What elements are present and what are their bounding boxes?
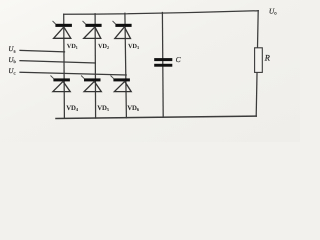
diode VD4 <box>51 76 71 92</box>
diode VD5 <box>81 76 101 92</box>
diode VD2 <box>83 21 102 39</box>
wire: column 1 vertical (VD1/VD4 branch) <box>63 14 66 118</box>
wire: phase C input line <box>20 72 126 75</box>
capacitor C plates <box>154 58 172 67</box>
wire: column 2 vertical (VD2/VD5 branch) <box>94 14 97 118</box>
diode VD1 <box>53 21 72 38</box>
paper background <box>0 0 300 142</box>
resistor R <box>255 48 263 73</box>
wire: column 3 vertical (VD3/VD6 branch) <box>125 13 127 118</box>
svg-text:R: R <box>264 53 270 62</box>
wire: right edge vertical (load branch) <box>256 11 258 117</box>
wire: capacitor branch vertical <box>161 13 164 118</box>
wire: bottom negative bus <box>56 116 256 118</box>
diode VD3 <box>113 21 132 39</box>
wire: phase B input line <box>20 61 95 63</box>
wire: top positive bus <box>64 11 259 15</box>
diode VD6 <box>111 76 132 92</box>
wire: phase A input line <box>20 50 65 52</box>
